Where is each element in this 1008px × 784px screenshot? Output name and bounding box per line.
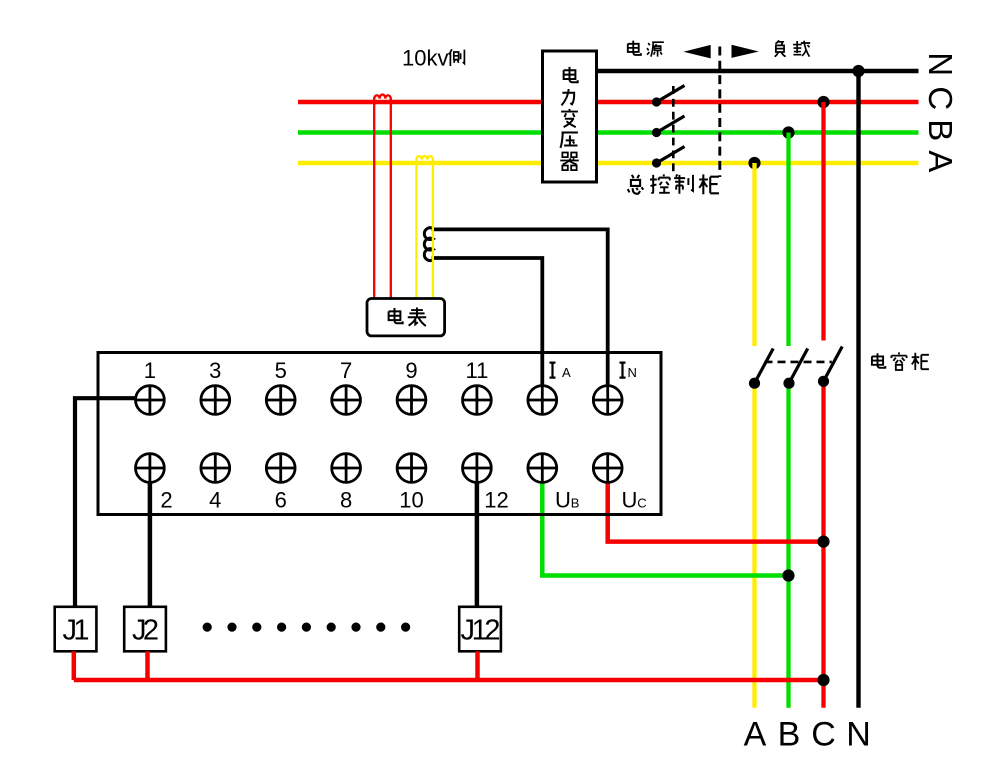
terminal UB [528,454,557,483]
wire CT to IN terminal [432,229,608,386]
label IA [550,363,556,378]
terminal IA [528,386,557,415]
label 电源 [628,41,641,55]
terminal IN [593,386,622,415]
svg-text:9: 9 [405,358,417,383]
CT red wires [374,102,391,299]
feeder green [786,133,790,708]
junction dot N [852,65,864,77]
svg-text:10kv: 10kv [402,46,448,71]
terminal 2 [136,454,165,483]
svg-text:N: N [922,52,959,76]
svg-text:3: 3 [209,358,221,383]
terminal block box [98,353,661,515]
svg-text:N: N [628,365,637,380]
junction dot UC [817,536,829,548]
meter CT coil black [424,228,433,261]
svg-text:B: B [778,716,801,754]
svg-text:12: 12 [484,488,508,513]
arrow right [732,45,759,58]
terminal 3 [201,386,230,415]
svg-text:U: U [622,488,638,513]
red wire J2 [145,651,150,680]
svg-text:B: B [922,119,959,141]
svg-text:4: 4 [209,488,221,513]
svg-text:J2: J2 [132,615,159,647]
bus A (yellow) [298,161,919,166]
cap switch green [783,378,794,389]
svg-text:A: A [744,716,767,754]
meter box 电表 [367,299,445,336]
cap switch yellow [749,378,760,389]
bus N (black) [597,69,919,74]
svg-text:N: N [846,716,871,754]
terminal UC [593,454,622,483]
main switch red [652,97,661,106]
junction dot UB [782,569,794,581]
transformer box 电力变压器 [543,51,597,182]
wire UB green [542,481,788,576]
terminal 7 [332,386,361,415]
svg-text:A: A [562,365,571,380]
svg-text:6: 6 [275,488,287,513]
CT yellow coil [416,156,433,163]
terminal 10 [397,454,426,483]
wire terminal2 to J2 [148,480,153,607]
terminal 11 [463,386,492,415]
svg-text:10: 10 [399,488,423,513]
svg-text:C: C [922,86,959,110]
cap switch link dashed [765,361,832,364]
svg-text:11: 11 [465,358,488,383]
J2 box [124,607,166,652]
bus C (red) [298,100,919,105]
label 电容柜 [872,353,885,368]
svg-text:2: 2 [160,488,172,513]
terminal 8 [332,454,361,483]
J1 box [55,607,97,652]
feeder black N [856,71,860,708]
red wire J12 [475,651,480,680]
terminal 12 [463,454,492,483]
junction dot bottom [817,674,829,686]
cap switch red [818,376,829,387]
wire UC red [608,481,824,542]
feeder yellow [752,163,756,708]
terminal 6 [266,454,295,483]
junction dot C [817,96,829,108]
main switch green [652,128,661,137]
junction dot A [748,157,760,169]
switch link dashed [672,86,675,174]
svg-text:C: C [637,496,646,511]
red wire J1 [72,651,77,680]
svg-text:U: U [555,488,571,513]
svg-text:A: A [922,150,959,172]
CT yellow wires [416,163,433,299]
label IN [620,363,626,378]
terminal 1 [136,386,165,415]
svg-text:C: C [811,716,836,754]
wire terminal12 to J12 [475,480,480,607]
svg-text:8: 8 [340,488,352,513]
svg-text:J12: J12 [461,615,501,647]
terminal 9 [397,386,426,415]
terminal 4 [201,454,230,483]
svg-text:7: 7 [340,358,352,383]
svg-text:5: 5 [275,358,287,383]
junction dot B [782,126,794,138]
main switch yellow [652,158,661,167]
bus B (green) [298,130,919,135]
label 负载 [775,40,786,56]
svg-text:B: B [571,496,580,511]
dots row [203,623,212,632]
feeder red [821,102,825,708]
wire CT to IA terminal [432,258,543,386]
label 总控制柜 [628,175,644,194]
svg-text:1: 1 [144,358,156,383]
CT red coil [374,95,391,102]
J12 box [459,607,501,652]
svg-text:J1: J1 [63,615,90,647]
arrow left [683,45,710,59]
terminal 5 [266,386,295,415]
red bottom bus [74,678,824,683]
divider dashed [718,47,721,178]
wire terminal1 to J1 [75,398,136,607]
